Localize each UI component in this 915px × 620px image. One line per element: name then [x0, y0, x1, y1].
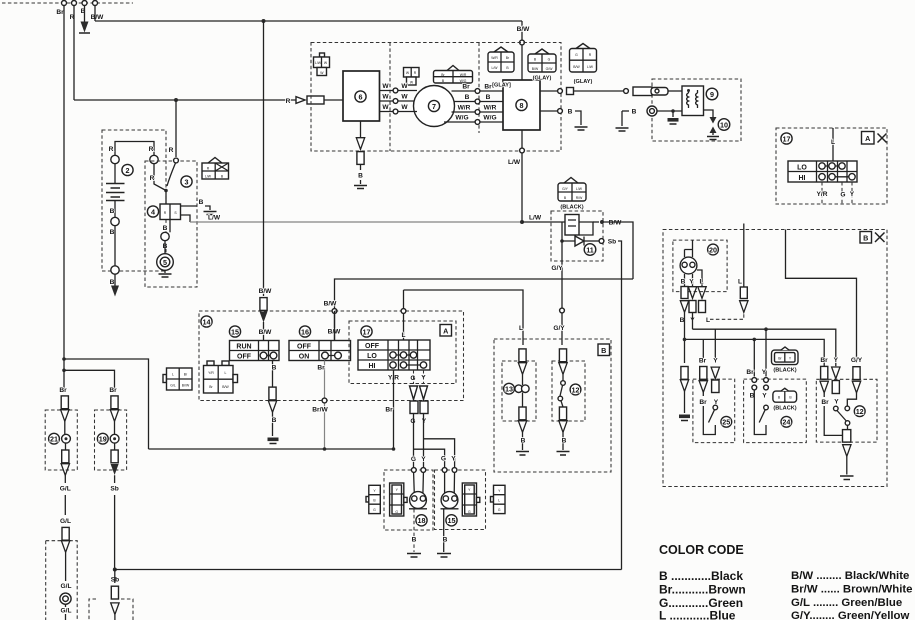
svg-text:W: W: [401, 83, 408, 90]
connector (BLACK) 1: [772, 350, 799, 365]
svg-text:16: 16: [301, 327, 309, 336]
svg-text:Br: Br: [56, 9, 64, 16]
connector above 8 second: [535, 49, 549, 54]
svg-text:24: 24: [782, 418, 790, 427]
wire Sb chain: [114, 475, 116, 569]
svg-text:LO: LO: [797, 165, 807, 172]
wire L/W down from CDI: [521, 130, 523, 222]
svg-text:G/Y: G/Y: [562, 187, 569, 191]
node dot: [600, 220, 604, 224]
box dashed B*: [663, 230, 887, 487]
svg-text:W/R: W/R: [460, 73, 467, 77]
label 19: [97, 433, 108, 444]
svg-text:13: 13: [505, 385, 513, 394]
svg-text:Br: Br: [59, 387, 67, 394]
label 9: [706, 88, 718, 100]
wire B below rectifier: [169, 220, 171, 233]
wire G/Y down: [561, 241, 563, 345]
svg-text:Br: Br: [317, 365, 325, 372]
wire B grounds: [413, 509, 415, 552]
connector pair (bullet): [296, 97, 305, 104]
svg-text:7: 7: [432, 102, 436, 111]
svg-text:Y: Y: [762, 393, 767, 400]
svg-text:G: G: [498, 508, 501, 512]
fuse 19 col: [111, 396, 118, 409]
svg-text:OFF: OFF: [237, 354, 252, 361]
CDI unit 8: [503, 80, 540, 130]
svg-text:Br: Br: [699, 358, 707, 365]
svg-text:B: B: [412, 537, 417, 544]
svg-text:A: A: [865, 134, 870, 143]
wire Br bus: [149, 448, 396, 450]
cross mark: [878, 134, 887, 143]
wire B/W down to CDI unit: [521, 21, 523, 80]
svg-text:Br: Br: [746, 369, 754, 376]
svg-text:Y/R: Y/R: [208, 371, 214, 375]
box dashed coil: [652, 79, 741, 141]
svg-text:RUN: RUN: [236, 344, 251, 351]
wire battery top link: [115, 142, 154, 156]
wire Br bus: [685, 339, 825, 366]
leads B Y L: [685, 270, 703, 287]
connector arrows G Y: [414, 370, 424, 384]
svg-text:3: 3: [185, 177, 189, 186]
svg-text:15: 15: [231, 327, 239, 336]
svg-text:G: G: [548, 58, 551, 62]
wire Br branch right: [64, 359, 149, 449]
connector far-left 3cell: [366, 497, 369, 503]
svg-text:4: 4: [151, 207, 155, 216]
svg-text:W/R: W/R: [458, 105, 471, 112]
svg-text:18: 18: [418, 516, 426, 525]
svg-text:W: W: [401, 104, 408, 111]
svg-text:G/L ........ Green/Blue: G/L ........ Green/Blue: [791, 597, 902, 609]
wire Y col 12R: [832, 367, 840, 379]
svg-text:Br: Br: [385, 407, 393, 414]
svg-text:G/L: G/L: [61, 608, 72, 615]
svg-text:5: 5: [163, 258, 167, 267]
svg-text:L: L: [401, 332, 405, 339]
connector above 8 first: [494, 47, 508, 52]
svg-text:B: B: [110, 208, 115, 215]
wire B to ground: [181, 206, 211, 210]
switch table 17A: [788, 161, 857, 182]
connector above 7 4-pin: [447, 66, 459, 71]
svg-text:W/R: W/R: [491, 56, 498, 60]
svg-text:L: L: [225, 371, 227, 375]
wire to rectifier: [165, 191, 167, 205]
wire B to ground from CDI: [540, 110, 558, 112]
svg-text:L/W: L/W: [315, 61, 322, 65]
svg-text:G/Y: G/Y: [851, 357, 863, 364]
svg-text:B: B: [199, 199, 204, 206]
svg-text:(BLACK): (BLACK): [773, 368, 796, 374]
horn 5: [157, 254, 174, 271]
battery cells: [114, 164, 116, 183]
fuse B/W: [260, 298, 267, 311]
light switch 16: [299, 326, 310, 337]
connector (BLACK) 2: [773, 391, 797, 402]
wire Br down left side: [63, 6, 65, 360]
svg-text:Y: Y: [850, 191, 855, 198]
wire R drop to switch: [175, 100, 177, 157]
svg-text:G/L: G/L: [60, 486, 71, 493]
wire Br col 12R: [821, 366, 828, 379]
svg-text:(BLACK): (BLACK): [773, 406, 796, 412]
svg-text:L/W: L/W: [208, 215, 221, 222]
wire G/Y column: [559, 349, 566, 362]
svg-text:Br: Br: [462, 84, 470, 91]
headlight bulb 18: [410, 492, 427, 509]
svg-text:B: B: [863, 234, 868, 243]
svg-text:B/W: B/W: [573, 65, 580, 69]
switch 12: [561, 381, 566, 386]
svg-text:L: L: [498, 499, 500, 503]
wire G/Y col 12R: [853, 367, 860, 380]
wire plug circuit: [622, 110, 629, 112]
svg-text:W: W: [401, 94, 408, 101]
ground filled: [672, 111, 674, 117]
svg-text:12: 12: [572, 385, 580, 394]
node Br terminal: [62, 1, 67, 6]
svg-text:Y: Y: [713, 358, 718, 365]
svg-text:HI: HI: [369, 363, 376, 370]
box dashed tail lamp: [46, 541, 77, 620]
wire L column: [519, 349, 526, 362]
wire R drop: [73, 6, 75, 101]
box dashed 12R: [816, 379, 877, 442]
box dashed 11: [551, 211, 603, 261]
resistor unit in 11: [565, 215, 579, 236]
wire B down: [684, 313, 686, 364]
svg-text:B: B: [521, 438, 526, 445]
wire Br col 25: [702, 339, 704, 360]
svg-text:6: 6: [359, 92, 363, 101]
wire B col to ground: [681, 367, 688, 380]
ignition coil 9: [682, 86, 704, 116]
svg-text:8: 8: [520, 101, 524, 110]
wire Br col 24: [753, 339, 755, 376]
wires into bulbs: [414, 470, 455, 494]
connector pair: [633, 87, 652, 96]
svg-text:L: L: [706, 317, 710, 324]
connector pins row: [681, 287, 688, 299]
svg-text:B/W: B/W: [91, 14, 105, 21]
svg-text:W/R: W/R: [484, 105, 497, 112]
box dashed A*: [776, 128, 887, 204]
svg-text:R: R: [109, 146, 114, 153]
connector above 7 small: [404, 68, 420, 78]
wire Y col 24: [765, 329, 767, 376]
wire B to ground: [84, 6, 86, 25]
svg-text:L: L: [831, 139, 835, 146]
svg-text:B/W ........ Black/White: B/W ........ Black/White: [791, 570, 909, 582]
node terminal B lower: [111, 266, 119, 274]
node junction Br2: [62, 369, 66, 373]
ground horn: [164, 270, 166, 273]
svg-text:Br...........Brown: Br...........Brown: [659, 583, 746, 597]
connector 4-pin with cross: [208, 158, 222, 164]
svg-text:G/L: G/L: [170, 384, 176, 388]
svg-text:Y/R: Y/R: [817, 191, 828, 198]
box dashed brake switch: [89, 599, 133, 620]
svg-text:Br: Br: [109, 387, 117, 394]
svg-text:B: B: [272, 417, 277, 424]
unit 6: [343, 71, 380, 121]
svg-text:Br/W: Br/W: [182, 384, 190, 388]
svg-text:A: A: [443, 327, 448, 336]
wire battery negative lead: [114, 274, 116, 288]
box dashed around 3,4,5: [145, 161, 197, 287]
label 10: [718, 119, 730, 131]
svg-text:W/G: W/G: [455, 115, 468, 122]
svg-text:B: B: [358, 173, 363, 180]
wire R horizontal: [74, 99, 296, 101]
svg-text:B/W: B/W: [609, 220, 623, 227]
svg-text:G: G: [575, 53, 578, 57]
box dashed B: [494, 339, 611, 472]
svg-text:OFF: OFF: [297, 344, 312, 351]
svg-text:L: L: [699, 279, 703, 286]
wire L: [832, 128, 834, 161]
box dashed 6/7/8: [311, 43, 561, 152]
svg-text:Sb: Sb: [608, 239, 616, 246]
box dashed 25: [693, 379, 735, 443]
svg-text:Y: Y: [451, 456, 456, 463]
wire to horn: [164, 241, 166, 254]
wire L into 17: [403, 290, 405, 340]
svg-text:G: G: [411, 456, 416, 463]
svg-text:9: 9: [710, 90, 714, 99]
svg-text:COLOR CODE: COLOR CODE: [659, 543, 744, 557]
wire out right: [579, 222, 593, 235]
svg-text:Y: Y: [689, 279, 694, 286]
svg-text:Br: Br: [699, 399, 707, 406]
cross mark: [875, 233, 885, 243]
engine stop switch 15: [229, 326, 240, 337]
svg-text:G: G: [840, 192, 845, 199]
label 20: [708, 244, 719, 255]
svg-text:25: 25: [722, 418, 730, 427]
headlight bulb 15b: [441, 492, 458, 509]
connector left-inner 3cell: [390, 483, 404, 516]
svg-text:20: 20: [709, 245, 717, 254]
label 17: [361, 326, 372, 337]
node horn terminal: [161, 232, 169, 240]
bulb 13: [515, 385, 523, 393]
svg-text:L/W: L/W: [576, 187, 583, 191]
label 14: [201, 316, 212, 327]
svg-text:L/W: L/W: [205, 175, 212, 179]
svg-text:G: G: [441, 456, 446, 463]
svg-text:B/W: B/W: [517, 26, 531, 33]
box dashed A: [349, 321, 456, 384]
svg-text:Br/W ...... Brown/White: Br/W ...... Brown/White: [791, 584, 913, 596]
label 17: [781, 133, 792, 144]
svg-text:Br/W: Br/W: [312, 407, 328, 414]
box dashed 19: [95, 410, 127, 470]
tail lamp bulb: [60, 593, 71, 604]
svg-text:B: B: [486, 94, 491, 101]
box dashed bulb 20: [673, 240, 727, 292]
node junction R: [174, 98, 178, 102]
box battery dashed: [102, 130, 166, 271]
box dashed 21: [45, 410, 77, 470]
svg-text:L: L: [738, 279, 742, 286]
wire CDI to coil: [540, 90, 558, 92]
svg-text:Br: Br: [821, 399, 829, 406]
svg-text:B/W: B/W: [222, 385, 229, 389]
box dashed 12: [552, 361, 585, 421]
svg-text:B/W: B/W: [259, 329, 273, 336]
switch 25: [713, 405, 718, 410]
diode: [575, 236, 584, 246]
wire Y col 25: [714, 329, 716, 360]
svg-text:B: B: [632, 109, 637, 116]
arrow lead end: [111, 286, 119, 297]
svg-text:ON: ON: [299, 354, 310, 361]
switch 3 blade: [167, 163, 176, 186]
svg-text:B: B: [601, 346, 606, 355]
indicator bulb 21: [62, 434, 71, 443]
svg-text:W: W: [382, 104, 389, 111]
node connectors headlight: [411, 468, 416, 473]
wire B/W bus to switches: [335, 279, 634, 341]
svg-text:19: 19: [99, 435, 107, 444]
switch 12R: [834, 406, 839, 411]
wire L column: [743, 224, 745, 288]
svg-text:G: G: [373, 508, 376, 512]
connector block B: [207, 361, 214, 366]
svg-text:12: 12: [856, 407, 864, 416]
svg-text:HI: HI: [799, 175, 806, 182]
svg-text:R/W: R/W: [576, 196, 583, 200]
svg-text:17: 17: [783, 134, 791, 143]
svg-text:G/L: G/L: [60, 518, 71, 525]
connector far-right 3cell: [491, 497, 494, 503]
svg-text:17: 17: [363, 327, 371, 336]
svg-text:R: R: [149, 146, 154, 153]
wire terminal stubs: [64, 0, 95, 1]
svg-text:G/Y........ Green/Yellow: G/Y........ Green/Yellow: [791, 610, 910, 620]
svg-text:B: B: [272, 365, 277, 372]
magneto 7: [414, 86, 455, 127]
wire Sb long bottom run: [115, 569, 622, 571]
svg-text:G/Y: G/Y: [551, 265, 563, 272]
common lead: [847, 425, 849, 429]
fuse below 6: [360, 121, 362, 137]
svg-text:L: L: [172, 373, 174, 377]
svg-text:21: 21: [50, 435, 58, 444]
svg-text:B: B: [110, 279, 115, 286]
node junction: [164, 189, 168, 193]
svg-text:Y: Y: [762, 369, 767, 376]
spark gap 10: [710, 117, 717, 124]
wire Br below 16: [324, 361, 326, 450]
wire W x3: [380, 90, 418, 92]
svg-text:B: B: [443, 537, 448, 544]
svg-text:L/W: L/W: [529, 215, 542, 222]
wire B/W into 16: [334, 311, 336, 341]
wire Br branch to 19: [64, 370, 115, 392]
svg-text:L/W: L/W: [508, 159, 521, 166]
svg-text:L ............Blue: L ............Blue: [659, 609, 736, 620]
node terminal R right: [150, 155, 158, 163]
svg-text:(GLAY): (GLAY): [574, 79, 593, 85]
svg-text:B: B: [681, 279, 686, 286]
svg-text:G/W: G/W: [546, 67, 554, 71]
svg-text:10: 10: [720, 120, 728, 129]
svg-text:Br: Br: [484, 84, 492, 91]
connector block A: [163, 375, 167, 383]
wire coil secondary: [704, 110, 714, 117]
svg-text:15: 15: [448, 516, 456, 525]
svg-text:B/W: B/W: [532, 67, 539, 71]
svg-text:OFF: OFF: [365, 343, 380, 350]
svg-text:W: W: [382, 83, 389, 90]
box dashed headlight L: [384, 470, 433, 530]
indicator bulb 19: [110, 434, 119, 443]
svg-text:B/W: B/W: [259, 288, 273, 295]
box divider: [390, 43, 479, 152]
svg-text:L: L: [519, 325, 523, 332]
connector right-inner 3cell: [462, 483, 476, 516]
svg-text:Sb: Sb: [110, 486, 118, 493]
svg-text:(GLAY): (GLAY): [533, 76, 552, 82]
box dashed 13: [502, 361, 536, 421]
wire G/Y feed: [786, 230, 857, 364]
connector (BLACK) above 11: [564, 178, 578, 184]
node B/W terminal: [93, 1, 98, 6]
ground: [204, 212, 217, 215]
fuse 21 col: [61, 396, 68, 409]
node junction Sb: [113, 568, 117, 572]
svg-text:B/W: B/W: [324, 301, 338, 308]
node junction Br: [62, 357, 66, 361]
diode branch: [560, 239, 564, 243]
svg-text:G: G: [395, 510, 398, 514]
wire Y down with bus: [423, 414, 425, 471]
svg-text:G/L: G/L: [61, 583, 72, 590]
svg-text:B: B: [562, 438, 567, 445]
svg-text:B: B: [568, 109, 573, 116]
wire L dashed link: [710, 314, 744, 319]
svg-text:2: 2: [126, 166, 130, 175]
wire battery to switch: [154, 164, 166, 191]
svg-text:B ............Black: B ............Black: [659, 569, 743, 583]
wire Y bus: [693, 329, 836, 366]
bulb 20: [685, 240, 693, 257]
svg-text:G: G: [468, 510, 471, 514]
svg-text:Y: Y: [421, 456, 426, 463]
label 3: [181, 176, 192, 187]
label 4: [147, 206, 158, 217]
svg-text:[GLAY]: [GLAY]: [492, 83, 511, 89]
svg-text:R: R: [169, 147, 174, 154]
wire B/W to right: [95, 6, 522, 22]
svg-text:(BLACK): (BLACK): [560, 205, 583, 211]
svg-text:L/W: L/W: [491, 66, 498, 70]
node terminal B: [111, 217, 119, 225]
node terminal R left: [111, 155, 119, 163]
ground (B): [81, 22, 89, 33]
node junction: [671, 109, 675, 113]
connector above 6: [320, 53, 325, 57]
label 11: [584, 244, 596, 256]
switch 24: [764, 405, 769, 410]
node B terminal: [82, 1, 87, 6]
wire G/L chain: [64, 475, 66, 515]
